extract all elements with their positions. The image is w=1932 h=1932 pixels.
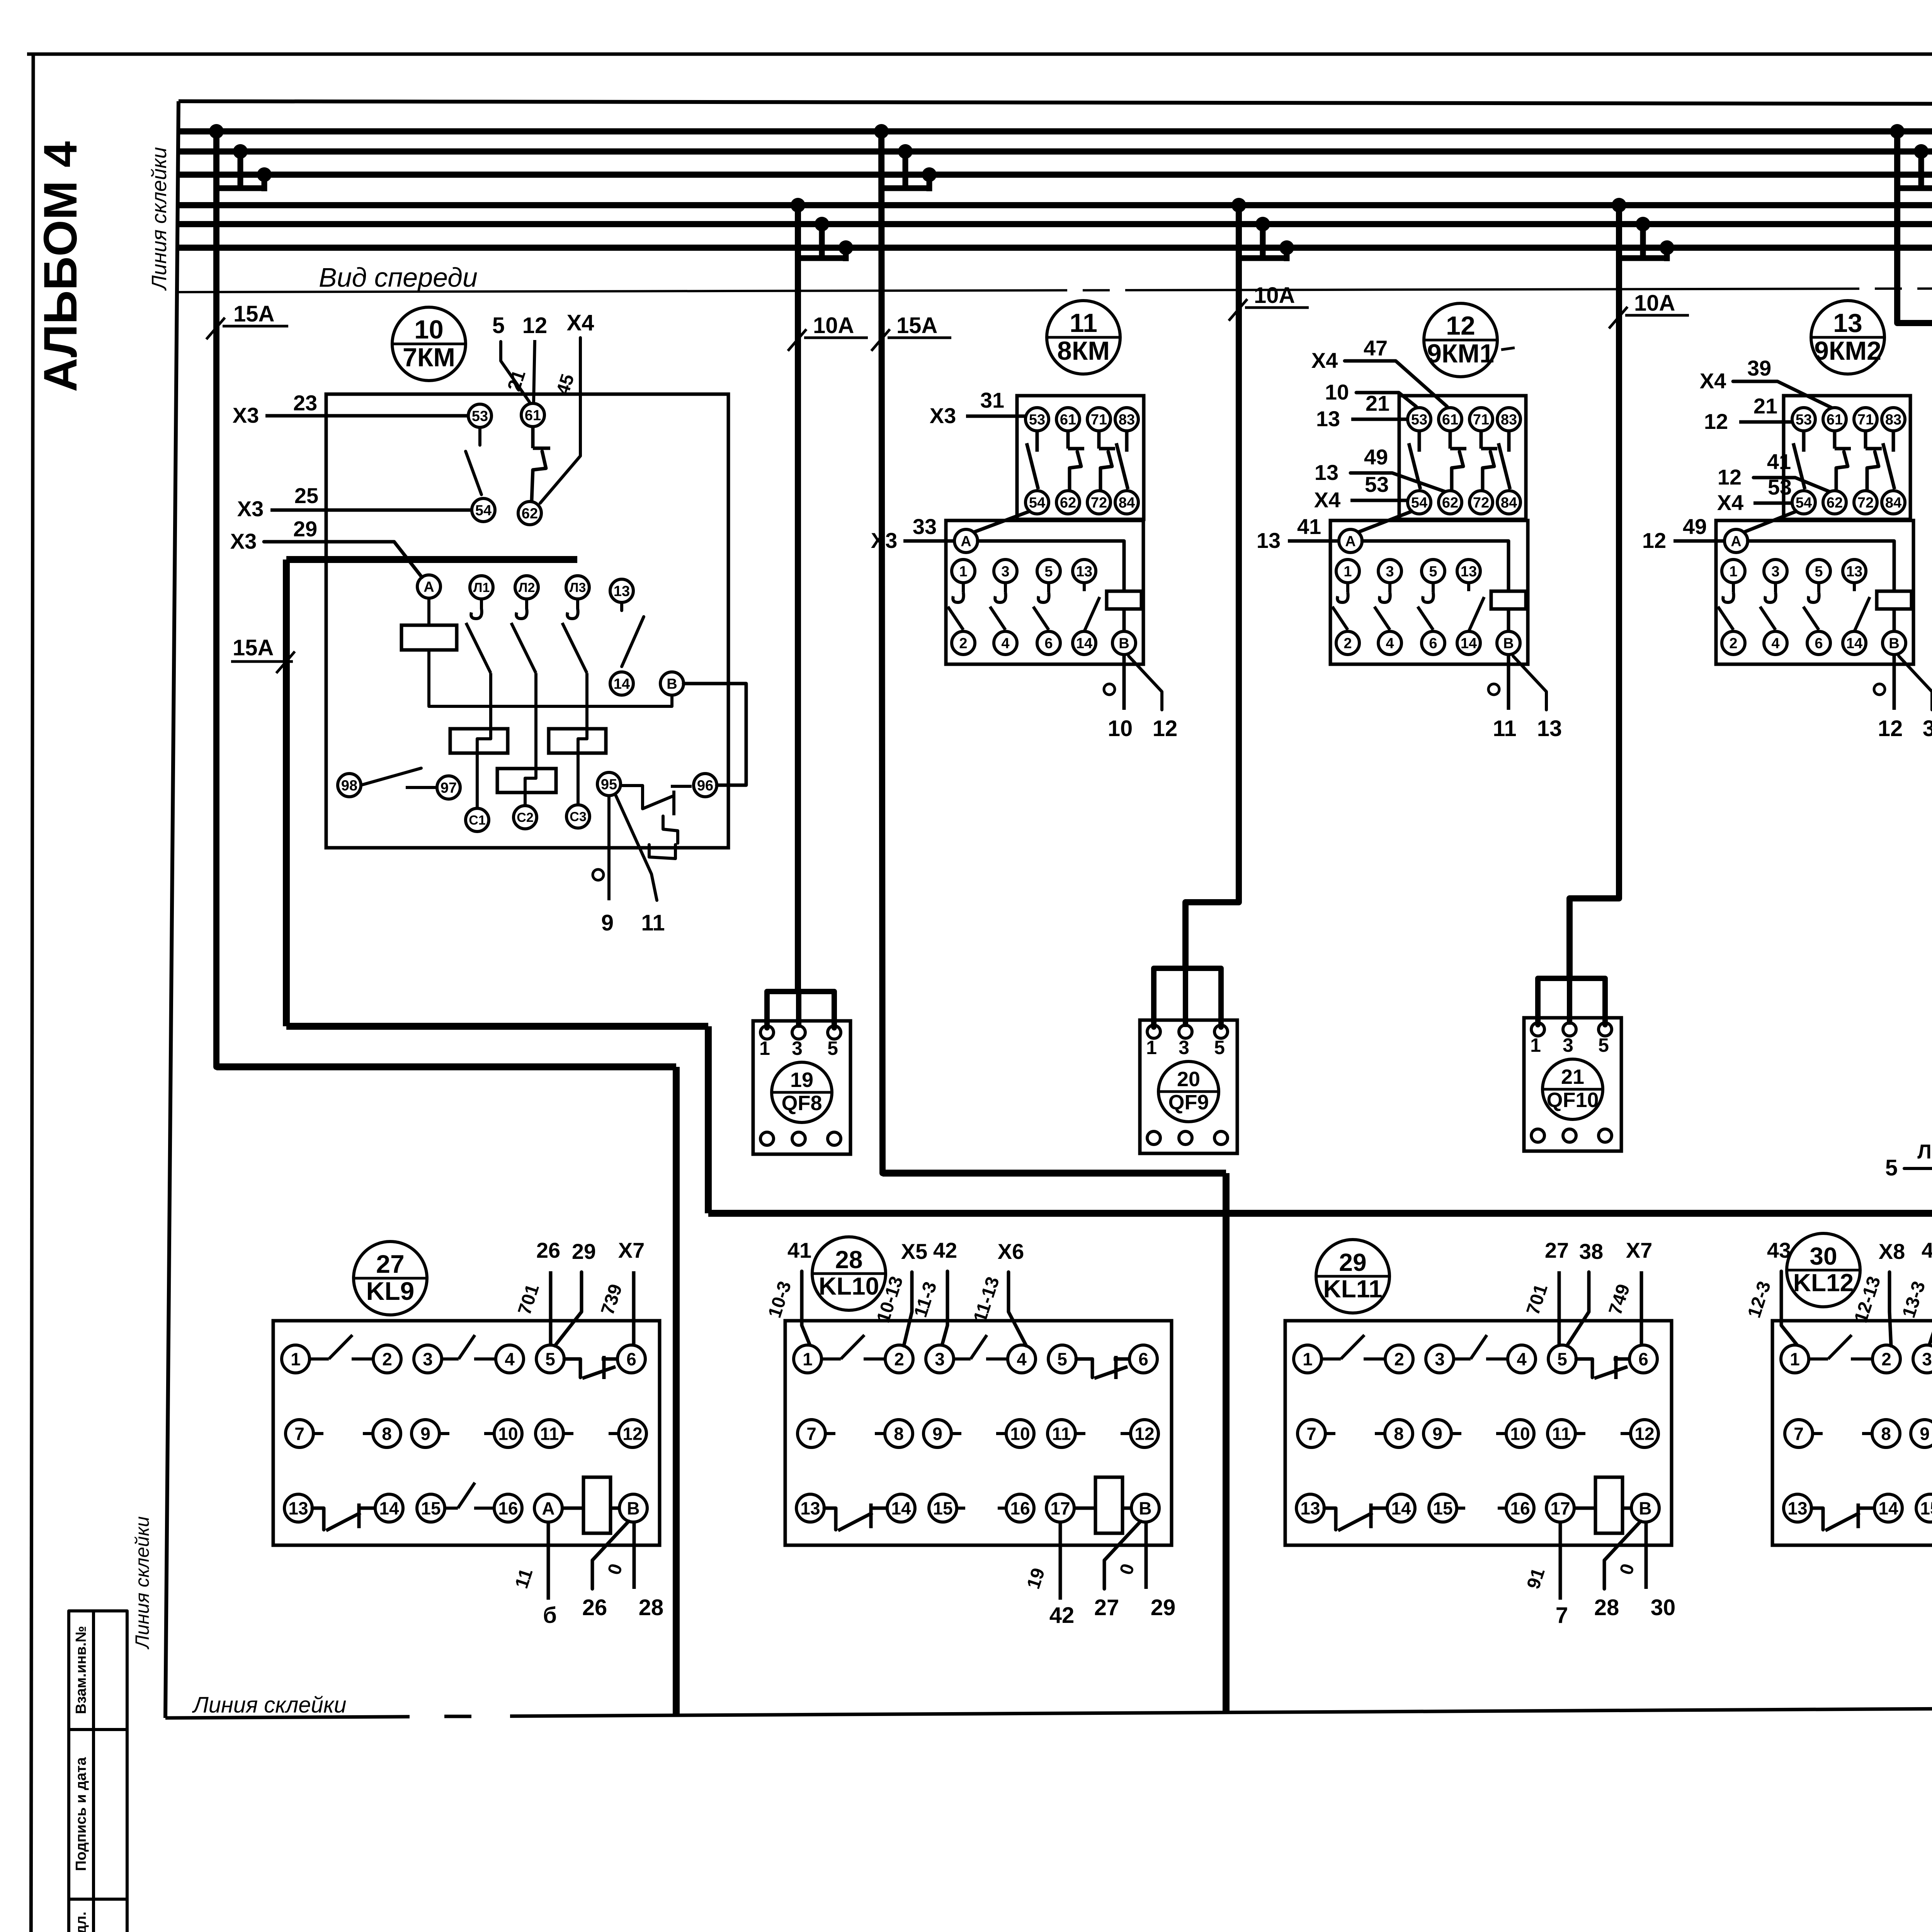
svg-text:4: 4 (1386, 636, 1394, 652)
contactor 9KM1 contact 13-14 (1467, 583, 1470, 591)
svg-text:5: 5 (827, 1037, 838, 1059)
svg-text:96: 96 (697, 778, 713, 794)
svg-text:5: 5 (1815, 564, 1823, 580)
svg-text:44: 44 (1922, 1238, 1932, 1262)
svg-text:1: 1 (1344, 564, 1352, 580)
svg-text:10A: 10A (813, 313, 854, 338)
bus tap junction dot at x=560 (209, 124, 224, 139)
svg-text:71: 71 (1091, 412, 1107, 428)
contactor 7KM terminal 96 (694, 774, 717, 797)
svg-text:B: B (1503, 636, 1514, 652)
svg-text:29: 29 (1151, 1595, 1176, 1620)
contactor 7KM wire stub 11 below 95 (615, 794, 657, 900)
svg-text:8КМ: 8КМ (1057, 336, 1110, 366)
svg-text:9: 9 (1920, 1424, 1930, 1444)
svg-text:9: 9 (420, 1424, 430, 1444)
svg-text:Инв.№ подл.: Инв.№ подл. (73, 1912, 89, 1932)
relay KL9 terminals row1 1-6 (282, 1345, 310, 1373)
breaker QF8 bottom terminals (760, 1132, 774, 1145)
contactor 9KM2 aux terminals 53 61 71 83 (1792, 408, 1815, 431)
svg-text:A: A (542, 1498, 554, 1519)
svg-text:12: 12 (1642, 528, 1666, 553)
svg-text:5: 5 (1044, 564, 1053, 580)
svg-text:A: A (1731, 534, 1741, 550)
bus tap junction dot at x=2343 (898, 144, 913, 159)
feeder label 10A (QF9) (1229, 299, 1247, 321)
svg-text:15: 15 (1920, 1498, 1932, 1519)
relay KL10 terminals row2 7-12 (798, 1420, 825, 1447)
relay KL11 terminals row1 1-6 (1294, 1345, 1321, 1373)
svg-text:12: 12 (1704, 409, 1728, 434)
contactor 9KM2 aux contact box (1784, 396, 1910, 519)
relay KL9 contact 3-4 (442, 1357, 459, 1361)
svg-text:12: 12 (522, 313, 548, 338)
svg-text:9: 9 (932, 1424, 942, 1444)
svg-text:4: 4 (1517, 1349, 1527, 1369)
contactor 9KM1 aux contact 61-62 (1449, 431, 1452, 449)
svg-text:19: 19 (790, 1068, 813, 1092)
svg-text:62: 62 (522, 506, 538, 522)
relay KL10 incoming wire label 42 (942, 1271, 947, 1345)
contactor 8KM aux contact 83-84 (1125, 431, 1129, 452)
svg-text:53: 53 (1411, 412, 1427, 428)
relay KL11 outgoing wires below terminal B (1604, 1521, 1641, 1589)
svg-text:10: 10 (1325, 380, 1349, 404)
svg-text:30: 30 (1810, 1242, 1837, 1270)
contactor 9KM1 terminal B (1497, 631, 1520, 655)
svg-text:61: 61 (1442, 412, 1458, 428)
contactor 8KM aux contact 71-72 (1097, 431, 1101, 449)
svg-text:3: 3 (792, 1037, 803, 1059)
svg-text:АЛЬБОМ 4: АЛЬБОМ 4 (34, 141, 87, 392)
svg-text:X7: X7 (1626, 1238, 1653, 1262)
relay KL11 incoming wire label 38 (1567, 1272, 1589, 1346)
contactor 9KM2 main box (1716, 520, 1913, 664)
svg-text:43: 43 (1767, 1238, 1791, 1262)
svg-text:7КМ: 7КМ (403, 343, 455, 372)
svg-text:3: 3 (1563, 1034, 1573, 1056)
svg-text:11: 11 (540, 1424, 559, 1444)
bus tap junction dot at x=4314 (1660, 240, 1674, 255)
inner drawing frame left line (165, 101, 179, 1718)
svg-text:13: 13 (1257, 528, 1281, 553)
svg-text:KL12: KL12 (1793, 1269, 1854, 1296)
svg-text:29: 29 (572, 1239, 596, 1264)
relay KL11 terminals row2 7-12 (1298, 1420, 1325, 1447)
svg-text:7: 7 (1306, 1424, 1316, 1444)
bus tap junction dot at x=684 (257, 167, 272, 182)
svg-text:14: 14 (614, 676, 630, 692)
contactor 7KM trip mechanism symbol (621, 786, 673, 809)
svg-text:14: 14 (1076, 636, 1092, 652)
svg-text:61: 61 (525, 408, 541, 424)
contactor 9KM1 aux contact 53-54 (1418, 431, 1421, 452)
svg-text:16: 16 (498, 1498, 518, 1519)
contactor 7KM terminal 97 (437, 776, 460, 799)
contactor 8KM wire stub below B with labels 10 12 (1122, 655, 1126, 710)
svg-text:14: 14 (1391, 1498, 1411, 1519)
relay KL12 terminals row1 1-6 (1781, 1345, 1809, 1373)
contactor 9KM1 wire stub below B with labels 11 13 (1507, 655, 1510, 710)
svg-text:A: A (961, 534, 971, 550)
svg-text:KL9: KL9 (366, 1277, 415, 1305)
feeder label 15A (8KM) (871, 329, 890, 351)
svg-text:49: 49 (1364, 445, 1388, 469)
contactor 7KM terminal Л1 (470, 576, 493, 599)
contactor 7KM terminal A (417, 575, 440, 598)
contactor 9KM2 wire A to coil (1748, 541, 1894, 591)
relay KL10 outgoing wires below terminal B (1104, 1521, 1141, 1589)
svg-text:X7: X7 (618, 1238, 645, 1262)
svg-text:4: 4 (505, 1349, 515, 1369)
relay 27/KL9 id circle (354, 1242, 427, 1315)
svg-text:QF9: QF9 (1168, 1091, 1209, 1114)
contactor 7KM contact 53-54 (478, 427, 481, 445)
bus tap junction dot at x=4972 (1914, 144, 1929, 159)
svg-text:C3: C3 (570, 810, 586, 824)
relay KL10 row3 stubs 15 16 (957, 1507, 965, 1510)
svg-text:29: 29 (1339, 1248, 1366, 1276)
svg-text:21: 21 (1561, 1065, 1584, 1088)
svg-text:X3: X3 (233, 403, 259, 427)
svg-text:15A: 15A (233, 301, 274, 327)
svg-text:49: 49 (1683, 514, 1707, 539)
breaker QF10 id circle (1543, 1059, 1603, 1119)
svg-text:X8: X8 (1879, 1239, 1905, 1264)
svg-text:1: 1 (803, 1349, 813, 1369)
svg-text:B: B (667, 676, 677, 692)
relay KL12 incoming wire label 43 (1781, 1271, 1797, 1345)
contactor 7KM terminal 53 (468, 404, 492, 427)
bus tap junction dot at x=622 (233, 144, 248, 159)
relay KL12 terminals row2 7-12 (1785, 1420, 1813, 1447)
relay KL11 contact 1-2 (1321, 1357, 1341, 1361)
svg-text:11: 11 (1493, 716, 1516, 741)
glue line bottom (линия склейки) with dash-dot (165, 1704, 1932, 1718)
svg-text:5: 5 (1557, 1349, 1567, 1369)
relay KL10 terminals row1 1-6 (794, 1345, 821, 1373)
contactor 9KM2 terminal B (1883, 631, 1906, 655)
contactor 9KM1 main terminals 2 4 6 14 (1336, 631, 1359, 655)
svg-text:B: B (1139, 1498, 1151, 1519)
svg-text:1: 1 (291, 1349, 301, 1369)
svg-text:13: 13 (288, 1498, 308, 1519)
contactor 8KM aux contact 61-62 (1066, 431, 1070, 449)
svg-text:41: 41 (1297, 514, 1321, 539)
relay KL11 incoming wire label 27 (1558, 1271, 1561, 1345)
relay KL9 outgoing wires below terminal B (592, 1521, 629, 1589)
svg-text:72: 72 (1473, 495, 1489, 511)
contactor 7KM outline box (326, 394, 728, 848)
svg-text:Л11: Л11 (1917, 1141, 1932, 1163)
svg-text:12: 12 (1634, 1424, 1654, 1444)
relay KL9 contact 5-6 (changeover) (564, 1359, 580, 1378)
svg-text:39: 39 (1747, 356, 1771, 380)
svg-text:53: 53 (1029, 412, 1045, 428)
svg-text:1: 1 (1530, 1034, 1541, 1056)
svg-text:1: 1 (759, 1037, 770, 1059)
breaker QF10 box (1524, 1018, 1621, 1151)
relay KL10 contact 5-6 (changeover) (1076, 1359, 1092, 1378)
svg-text:B: B (1639, 1498, 1651, 1519)
svg-text:72: 72 (1091, 495, 1107, 511)
svg-text:8: 8 (894, 1424, 904, 1444)
svg-text:15: 15 (421, 1498, 440, 1519)
svg-text:71: 71 (1473, 412, 1489, 428)
svg-text:47: 47 (1364, 336, 1388, 360)
svg-text:6: 6 (1138, 1349, 1148, 1369)
svg-text:14: 14 (891, 1498, 911, 1519)
contactor 8KM wire A to coil (978, 541, 1124, 591)
cable route 7KM lower horizontal (286, 1023, 708, 1030)
relay KL9 contact 15-16 (445, 1507, 458, 1510)
svg-text:Подпись и дата: Подпись и дата (73, 1757, 89, 1871)
svg-text:KL11: KL11 (1323, 1275, 1383, 1303)
contactor 7KM terminal C3 (566, 805, 590, 828)
svg-text:2: 2 (1881, 1349, 1891, 1369)
contactor 7KM main contact Л2 blade and wire to C2 (525, 599, 528, 609)
relay KL9 contact 1-2 (310, 1357, 329, 1361)
contactor 7KM contact 61-62 (NC) (531, 427, 535, 448)
relay KL10 incoming wire label 41 (802, 1271, 810, 1345)
bus tap merge bracket (798, 255, 846, 261)
svg-text:X4: X4 (567, 310, 594, 335)
relay KL9 incoming wire label 29 (555, 1272, 582, 1346)
svg-text:12: 12 (1878, 716, 1903, 741)
svg-text:42: 42 (933, 1238, 957, 1262)
contactor 9KM2 terminal A (1725, 529, 1748, 553)
svg-text:X4: X4 (1700, 369, 1726, 393)
svg-text:13: 13 (1461, 564, 1477, 580)
svg-text:31: 31 (1923, 716, 1932, 741)
svg-text:84: 84 (1119, 495, 1135, 511)
contactor 7KM terminal C2 (514, 806, 537, 829)
svg-text:B: B (1889, 636, 1899, 652)
relay KL9 box (273, 1321, 660, 1545)
contactor 11/8KM id circle (1047, 301, 1120, 374)
contactor 7KM main contact Л1 blade and wire to C1 (480, 599, 483, 609)
breaker QF8 id circle (772, 1062, 832, 1122)
svg-text:3: 3 (935, 1349, 945, 1369)
svg-text:53: 53 (1768, 475, 1792, 499)
svg-text:6: 6 (626, 1349, 636, 1369)
contactor 9KM1 wire A to 54 diagonal (1357, 511, 1413, 532)
relay KL10 incoming wire label X5 (904, 1272, 912, 1346)
svg-text:3: 3 (423, 1349, 433, 1369)
svg-text:14: 14 (379, 1498, 399, 1519)
svg-text:23: 23 (293, 391, 317, 415)
relay KL10 incoming wire label X6 (1009, 1272, 1026, 1346)
relay KL10 outgoing wire below terminal 17 (1059, 1522, 1062, 1600)
svg-text:9: 9 (601, 910, 614, 935)
contactor 7KM thermal element 2 (549, 729, 606, 753)
svg-text:11: 11 (641, 910, 665, 935)
relay KL9 incoming wire label 26 (549, 1271, 553, 1345)
bus tap junction dot at x=4252 (1636, 217, 1650, 231)
svg-text:28: 28 (639, 1595, 664, 1620)
contactor 9KM2 coil (1877, 591, 1912, 609)
feeder 25A wire to 7QF with jog (1897, 131, 1932, 975)
svg-text:1: 1 (1303, 1349, 1313, 1369)
contactor 9KM2 aux terminals 54 62 72 84 (1792, 491, 1815, 514)
svg-text:17: 17 (1050, 1498, 1070, 1519)
svg-text:X3: X3 (871, 528, 898, 553)
bus tap merge bracket (1239, 255, 1287, 261)
svg-text:10: 10 (414, 315, 444, 344)
svg-text:12: 12 (1134, 1424, 1154, 1444)
svg-text:10: 10 (498, 1424, 518, 1444)
breaker QF8 top terminals 1 3 5 (760, 1026, 774, 1039)
contactor 9KM2 wire stub below B with labels 12 31 (1893, 655, 1896, 710)
contactor 8KM main terminals 1 3 5 13 (952, 560, 975, 583)
svg-text:2: 2 (1394, 1349, 1404, 1369)
contactor 13/9KM2 id circle (1811, 301, 1884, 374)
svg-text:7: 7 (806, 1424, 816, 1444)
contactor 7KM thermal element 3 (497, 769, 556, 793)
svg-text:27: 27 (1545, 1238, 1569, 1262)
svg-text:53: 53 (1796, 412, 1812, 428)
contactor 7KM contact 98-97 (361, 768, 421, 785)
breaker QF9 box (1140, 1020, 1237, 1153)
contactor 8KM aux contact box (1017, 396, 1144, 519)
relay KL9 terminals row3 (284, 1494, 312, 1522)
relay KL11 contact 3-4 (1454, 1357, 1471, 1361)
breaker QF10 bottom terminals (1531, 1129, 1544, 1142)
svg-text:95: 95 (601, 777, 617, 793)
svg-text:9: 9 (1432, 1424, 1442, 1444)
relay KL11 incoming wire label X7 (1640, 1271, 1643, 1345)
svg-text:5: 5 (492, 313, 505, 338)
svg-text:13: 13 (800, 1498, 820, 1519)
contactor 7KM wire stub 9 below 95 (607, 796, 611, 900)
svg-text:5: 5 (545, 1349, 555, 1369)
svg-text:62: 62 (1827, 495, 1843, 511)
breaker QF9 bottom terminals (1147, 1131, 1160, 1145)
bus tap junction dot at x=2189 (838, 240, 853, 255)
bus tap junction dot at x=2065 (791, 198, 805, 213)
cable route 7KM left vertical (283, 560, 290, 1026)
relay KL10 contact 1-2 (821, 1357, 841, 1361)
svg-text:13: 13 (1833, 308, 1862, 338)
svg-text:13: 13 (614, 583, 630, 600)
svg-text:41: 41 (1767, 449, 1791, 474)
svg-text:21: 21 (1753, 394, 1777, 418)
svg-text:20: 20 (1177, 1068, 1200, 1091)
inner drawing frame top line (179, 101, 1932, 105)
relay KL11 row2 stubs (1325, 1432, 1335, 1435)
relay KL10 box (785, 1321, 1172, 1545)
relay KL11 outgoing wire below terminal 17 (1559, 1522, 1562, 1600)
contactor 9KM2 main contact 1-2 (1732, 583, 1735, 592)
contactor 8KM contact 13-14 (1083, 583, 1086, 591)
svg-text:X5: X5 (901, 1239, 928, 1264)
contactor 7KM terminal 98 (338, 774, 361, 797)
contactor 9KM1 aux contact 83-84 (1507, 431, 1511, 452)
cable route label 15A lower (276, 651, 295, 673)
svg-text:15A: 15A (233, 635, 274, 660)
svg-text:17: 17 (1550, 1498, 1570, 1519)
relay KL9 terminals row2 7-12 (286, 1420, 313, 1447)
svg-text:2: 2 (894, 1349, 904, 1369)
svg-text:3: 3 (1771, 564, 1779, 580)
svg-text:5: 5 (1057, 1349, 1067, 1369)
svg-text:41: 41 (787, 1238, 811, 1262)
relay KL11 box (1285, 1321, 1672, 1545)
svg-text:13: 13 (1846, 564, 1862, 580)
svg-text:4: 4 (1771, 636, 1779, 652)
contactor 8KM aux contact 53-54 (1036, 431, 1039, 452)
svg-text:2: 2 (959, 636, 967, 652)
svg-text:62: 62 (1442, 495, 1458, 511)
feeder 15A vertical wire F3 (881, 131, 883, 1173)
svg-text:71: 71 (1857, 412, 1874, 428)
contactor 8KM aux terminals 53 61 71 83 (1026, 408, 1049, 431)
bus tap junction dot at x=3206 (1231, 198, 1246, 213)
contactor 7KM terminal 61 (521, 403, 544, 427)
svg-text:10A: 10A (1254, 283, 1295, 308)
contactor 9KM2 main contact 3-4 (1774, 583, 1777, 592)
bus tap junction dot at x=2127 (815, 217, 829, 231)
svg-text:13: 13 (1787, 1498, 1807, 1519)
contactor 7KM terminal 95 (597, 772, 621, 796)
bus tap junction dot at x=2405 (922, 167, 937, 182)
relay KL12 contact 13-14 (changeover) (1811, 1508, 1823, 1530)
svg-text:54: 54 (1029, 495, 1045, 511)
relay KL10 contact 3-4 (954, 1357, 971, 1361)
contactor 9KM2 aux contact 61-62 (1833, 431, 1837, 449)
svg-text:3: 3 (1435, 1349, 1445, 1369)
cable route 7KM drop to collector bus (705, 1026, 712, 1213)
relay KL9 outgoing wire below terminal A (547, 1522, 550, 1600)
svg-text:10: 10 (1010, 1424, 1030, 1444)
svg-text:6: 6 (1429, 636, 1437, 652)
svg-text:B: B (627, 1498, 639, 1519)
bus tap junction dot at x=4190 (1612, 198, 1626, 213)
contactor 7KM main contact Л3 blade and wire to C3 (576, 599, 579, 609)
contactor 7KM thermal element 1 (450, 729, 508, 753)
contactor 9KM1 main contact 1-2 (1346, 583, 1349, 592)
svg-text:9КМ1: 9КМ1 (1427, 339, 1494, 368)
bus tap merge bracket (881, 185, 929, 191)
bus tap junction dot at x=3268 (1255, 217, 1270, 231)
svg-text:2: 2 (1344, 636, 1352, 652)
relay KL12 contact 1-2 (1809, 1357, 1828, 1361)
contactor 8KM terminal A (954, 529, 978, 553)
svg-text:Линия склейки: Линия склейки (131, 1516, 153, 1650)
contactor 9KM2 aux contact 83-84 (1892, 431, 1895, 452)
svg-text:2: 2 (1729, 636, 1737, 652)
svg-text:30: 30 (1651, 1595, 1676, 1620)
svg-text:Л1: Л1 (473, 580, 490, 595)
relay KL9 coil (562, 1507, 583, 1510)
sheet outer frame left line (31, 54, 33, 1932)
power bus line 6 (179, 245, 1932, 251)
feeder 10A wire to QF9 with jog (1185, 205, 1239, 968)
svg-text:15: 15 (933, 1498, 952, 1519)
svg-text:7: 7 (1794, 1424, 1804, 1444)
svg-text:13: 13 (1316, 406, 1340, 431)
breaker QF9 feed bracket (1154, 968, 1221, 1027)
svg-text:27: 27 (1094, 1595, 1119, 1620)
svg-text:QF8: QF8 (781, 1092, 822, 1115)
contactor 8KM main contact 3-4 (1004, 583, 1007, 592)
contactor 8KM main contact 1-2 (962, 583, 965, 592)
svg-text:1: 1 (1729, 564, 1737, 580)
cable route 8KM horizontal (883, 1170, 1226, 1177)
svg-text:13: 13 (1076, 564, 1092, 580)
svg-text:11: 11 (1070, 308, 1097, 338)
svg-text:16: 16 (1010, 1498, 1030, 1519)
